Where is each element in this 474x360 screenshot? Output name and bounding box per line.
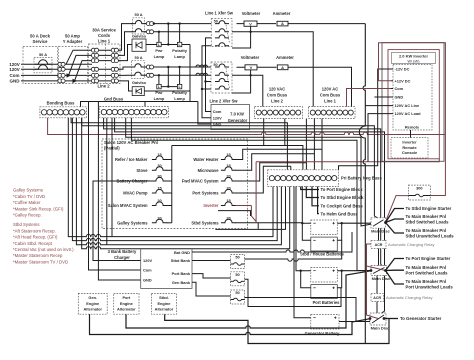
connector service cord: [91, 59, 95, 63]
svg-text:*Galley Recep.: *Galley Recep.: [13, 213, 42, 218]
wire link to charger com: [89, 102, 141, 271]
wire rail to port disc: [104, 118, 386, 271]
svg-text:2.0 KW Inverter: 2.0 KW Inverter: [399, 53, 429, 58]
wire stbd battery parallel right: [337, 223, 341, 240]
svg-text:Com: Com: [395, 86, 404, 91]
svg-text:GalvIso: GalvIso: [132, 80, 147, 85]
junction port disc output: [384, 269, 387, 272]
wire lamp common tap hot line1: [167, 24, 169, 45]
svg-text:Lamp: Lamp: [154, 96, 165, 101]
wire battery charger breaker exit: [102, 180, 153, 182]
wire port battery parallel left: [301, 271, 311, 288]
svg-text:Line 1: Line 1: [98, 39, 111, 44]
enclosure 30A service cords: [89, 44, 121, 84]
breaker bump xfer2 neu: [215, 72, 229, 75]
wire remote to console: [410, 130, 412, 138]
connector Y-adapter hot1: [58, 62, 62, 66]
hop line2 hot over gen wire: [196, 65, 200, 67]
wire stbd systems jog to neg buss: [215, 187, 285, 230]
svg-text:+12V DC: +12V DC: [395, 78, 411, 83]
breaker bump xfer2 hot: [215, 64, 229, 67]
svg-text:*Cabin Stbd. Recept: *Cabin Stbd. Recept: [13, 241, 53, 246]
salon 120V AC breaker panel enclosure: [102, 139, 248, 229]
wire main vertical line1 feed: [359, 24, 365, 344]
svg-text:120V: 120V: [9, 67, 20, 72]
svg-text:50 Amp: 50 Amp: [65, 34, 80, 39]
wire link to charger gnd: [98, 102, 140, 281]
svg-text:50 A: 50 A: [135, 55, 143, 60]
breaker 50A line1: [133, 18, 145, 34]
wire inverter gnd: [374, 96, 391, 98]
junction stbd disc output: [384, 221, 387, 224]
wire com buss line2 drop: [284, 119, 286, 146]
wire lamp common tap line2: [167, 67, 169, 87]
svg-text:Main Disc: Main Disc: [371, 326, 390, 331]
svg-text:Generator: Generator: [228, 118, 248, 123]
wire lamp2 tap hot: [179, 24, 181, 43]
switch main disc generator: [370, 313, 386, 325]
svg-text:Alternator: Alternator: [117, 306, 136, 311]
breaker bump xfer1 gen neu: [215, 43, 229, 46]
svg-text:Stbd Switched Loads: Stbd Switched Loads: [406, 220, 450, 225]
svg-text:Port Bank: Port Bank: [172, 271, 191, 276]
svg-text:*Master Sink Recep. (GFI): *Master Sink Recep. (GFI): [13, 206, 64, 211]
connector service cord: [111, 67, 115, 71]
svg-text:To Main Breaker Pnl: To Main Breaker Pnl: [406, 214, 447, 219]
svg-text:Port Systems: Port Systems: [192, 191, 219, 196]
svg-text:Ammeter: Ammeter: [273, 11, 291, 16]
battery port 2: [311, 285, 338, 299]
connector service cord: [111, 48, 115, 52]
bonding buss strip: [40, 107, 87, 118]
wire line1 hot rise: [120, 24, 133, 51]
junction com split: [67, 73, 72, 77]
wire neg buss to To Stbd Engine Block: [306, 187, 319, 198]
gnd buss strip: [100, 106, 169, 117]
wire neg buss to To Port Engine Block: [301, 187, 319, 190]
svg-text:Bonding Buss: Bonding Buss: [47, 100, 75, 105]
wire line2 hot to xfer: [144, 66, 211, 68]
connector service cord: [111, 53, 115, 57]
wire gnd drop join 4: [111, 118, 113, 237]
wire inverter breaker second pole: [218, 211, 251, 216]
wire inverter AC feed maroon riser: [251, 162, 256, 222]
battery stbd house 1: [311, 220, 338, 235]
svg-text:Com Buss: Com Buss: [320, 92, 341, 97]
wire voltmeter2 stub: [250, 70, 252, 75]
wire charger port bank to fuse: [192, 274, 231, 278]
wire maroon acr to gen disc: [367, 244, 379, 319]
breaker bump line1 neu: [131, 29, 145, 32]
svg-text:A: A: [281, 21, 284, 26]
wire Y split gnd to line1: [75, 61, 93, 81]
wire inverter AC line in: [365, 105, 391, 107]
ACR port-gen: [371, 294, 384, 302]
svg-text:50 A: 50 A: [135, 12, 143, 17]
svg-text:Y Adapter: Y Adapter: [63, 39, 83, 44]
svg-text:To Generator Starter: To Generator Starter: [400, 316, 442, 321]
wire neg buss to stbd batteries: [301, 187, 303, 224]
breaker 50A line2: [132, 61, 145, 79]
svg-text:Stbd Bank: Stbd Bank: [171, 258, 191, 263]
wire line1 gnd through lamps: [146, 44, 190, 46]
svg-text:To Port Engine Block: To Port Engine Block: [321, 187, 364, 192]
svg-text:Water Heater: Water Heater: [193, 157, 219, 162]
wire voltmeter1 return: [232, 32, 251, 48]
breaker bump xfer2 gen neu: [215, 86, 229, 89]
ammeter A1: [277, 21, 288, 26]
enclosure 50A dock service: [23, 47, 58, 84]
svg-text:30A Service: 30A Service: [92, 28, 116, 33]
svg-text:W/ (xfr): W/ (xfr): [407, 59, 419, 63]
wire to To Main Breaker Pnl: [386, 223, 405, 234]
wire ground return run: [72, 118, 277, 241]
ACR stbd-port: [371, 241, 386, 249]
svg-text:120V: 120V: [143, 258, 152, 263]
wire gen gnd to gnd buss: [198, 102, 211, 125]
wire port alternator to port disc: [126, 271, 371, 328]
svg-text:Galley Systems: Galley Systems: [13, 188, 43, 193]
wire gen com tap xfer2: [206, 81, 212, 83]
wire gnd drop join 2: [106, 118, 108, 245]
hop line2 hot over gen wire3: [204, 65, 208, 67]
com buss line2 strip: [255, 107, 303, 119]
lamp polarity line1: [177, 42, 181, 46]
svg-text:Charger: Charger: [114, 255, 130, 260]
connector service cord: [91, 53, 95, 57]
hop line2 neu over gen wire: [196, 73, 200, 75]
svg-text:Lamp: Lamp: [174, 96, 185, 101]
connector line2 hot: [146, 65, 150, 69]
svg-text:MVAC Pump: MVAC Pump: [123, 191, 148, 196]
hop line2 neu over gen wire2: [200, 73, 204, 75]
inverter title box: [392, 52, 436, 63]
wire ground return run: [82, 118, 290, 249]
svg-text:Voltmeter: Voltmeter: [241, 55, 260, 60]
svg-text:Port Switched Loads: Port Switched Loads: [406, 271, 449, 276]
wire line1 conductor: [92, 60, 120, 62]
connector Y-adapter hot2: [58, 67, 62, 71]
svg-text:Port Unswitched Loads: Port Unswitched Loads: [406, 285, 454, 290]
svg-text:7.0 KW: 7.0 KW: [230, 112, 244, 117]
battery charger 3 bank: [141, 249, 192, 289]
wire to To Port Engine Starter: [386, 259, 405, 271]
wire buss1 drop cascade 2: [313, 119, 315, 170]
wire line1 neu to xfer: [145, 31, 212, 33]
breaker bump xfer1 hot: [215, 21, 229, 24]
svg-text:Com Buss: Com Buss: [267, 92, 288, 97]
alternator port engine: [114, 294, 139, 315]
breaker bump line2 neu: [131, 72, 145, 75]
svg-text:Polarity: Polarity: [172, 90, 187, 95]
fuse 300A inverter: [408, 185, 430, 200]
wire inverter -12V to neg buss: [339, 69, 392, 170]
svg-text:50: 50: [235, 290, 239, 295]
wire ACR to disc port: [378, 249, 380, 266]
svg-text:Bat GND: Bat GND: [174, 250, 190, 255]
wire neg buss to To Helm Gnd Buss: [318, 187, 319, 214]
svg-text:To Main Breaker Pnl: To Main Breaker Pnl: [406, 279, 447, 284]
wire xfer1 output to buss1: [232, 32, 313, 107]
svg-text:Polarity: Polarity: [172, 48, 187, 53]
junction port disc input: [370, 269, 373, 272]
switch main disc stbd: [371, 218, 386, 228]
wire port batteries to disc: [342, 270, 371, 272]
fuse 50A gen bank: [231, 290, 245, 304]
wire buss1 drop cascade 3: [305, 119, 307, 170]
wire line2 hot rise: [120, 67, 132, 69]
wire stbd alternator run: [165, 314, 389, 343]
svg-text:Pwr: Pwr: [155, 90, 163, 95]
wire fuse to gen battery: [245, 298, 357, 322]
svg-text:Automatic Charging Relay: Automatic Charging Relay: [386, 295, 432, 300]
voltmeter V1: [244, 21, 257, 26]
wire gen alternator to gen disc: [90, 314, 371, 334]
svg-text:Stbd Systems: Stbd Systems: [191, 220, 219, 225]
svg-text:Cords: Cords: [98, 33, 111, 38]
wire inverter AC load out: [368, 114, 391, 162]
wire line1 neu rise: [120, 32, 133, 56]
svg-text:120V AC Load: 120V AC Load: [395, 111, 422, 116]
wire gen battery to disc: [339, 319, 370, 322]
wire com buss line2 drop: [263, 119, 265, 146]
svg-text:120 VAC: 120 VAC: [269, 86, 285, 91]
junction voltmeter2: [249, 74, 251, 76]
wire fuse to stbd battery: [245, 240, 342, 261]
junction gnd split: [73, 79, 78, 83]
svg-text:Line 2 Xfer Sw: Line 2 Xfer Sw: [210, 98, 239, 103]
breaker 50A dock inner box: [34, 58, 52, 73]
connector Y-adapter com: [58, 73, 62, 77]
wire inverter AC feed maroon run: [256, 159, 439, 162]
wire charger bat gnd: [192, 232, 352, 252]
svg-text:300: 300: [416, 185, 423, 190]
enclosure divider service cords: [105, 44, 107, 84]
hop line2 neu over gen wire3: [204, 73, 208, 75]
wire disc stbd to ACR: [378, 228, 380, 240]
inverter remote console: [391, 138, 428, 158]
svg-text:Console: Console: [402, 150, 418, 155]
svg-text:120V: 120V: [213, 115, 222, 120]
svg-text:Com: Com: [213, 109, 222, 114]
connector service cord: [111, 73, 115, 77]
wire neg buss to To Cockpit Gnd Buss: [312, 187, 319, 206]
wire neg buss to gen battery: [294, 187, 311, 318]
wire charger stbd bank to fuse: [192, 260, 231, 262]
wire rail2 to stbd disc: [126, 118, 377, 226]
breaker bump line2 hot: [131, 64, 145, 67]
wire inverter com to buss1: [347, 89, 392, 107]
connector service cord: [111, 79, 115, 83]
wire ACR2 to disc gen: [376, 302, 378, 314]
svg-text:-12V DC: -12V DC: [395, 67, 410, 72]
wire line1 hot to xfer: [145, 23, 212, 25]
svg-text:V: V: [250, 65, 253, 70]
svg-text:To Main Breaker Pnl: To Main Breaker Pnl: [406, 265, 447, 270]
wire hot2 from shore: [21, 68, 120, 70]
wire rail to gen disc: [115, 118, 385, 316]
svg-text:Port: Port: [122, 295, 130, 300]
wire buss1 drop cascade 1: [321, 119, 323, 170]
svg-text:Voltmeter: Voltmeter: [242, 11, 261, 16]
junction gen disc input: [369, 317, 372, 320]
wire line2 gnd to gnd buss: [189, 91, 191, 102]
wire maroon rail M1: [48, 118, 446, 135]
alternator stbd engine: [151, 294, 176, 315]
svg-text:Remote: Remote: [402, 145, 417, 150]
connector service cord: [91, 73, 95, 77]
svg-text:50: 50: [235, 255, 239, 260]
svg-text:Lamp: Lamp: [154, 54, 165, 59]
svg-text:Refer / Ice Maker: Refer / Ice Maker: [115, 157, 148, 162]
svg-text:Ammeter: Ammeter: [276, 55, 294, 60]
svg-text:Pri Battery Neg Buss: Pri Battery Neg Buss: [341, 176, 382, 181]
connector line2 neu: [146, 73, 150, 77]
wire line2 feed to buss1: [288, 67, 352, 106]
wire salon breaker to charger 120V: [93, 181, 141, 261]
svg-text:Engine: Engine: [120, 301, 134, 306]
wire line2 gnd out: [144, 90, 190, 92]
wire maroon branch to port disc: [367, 266, 386, 271]
svg-text:To Cockpit Gnd Buss: To Cockpit Gnd Buss: [321, 203, 364, 208]
wire fuse to port battery: [245, 279, 342, 306]
wire rail to stbd disc: [82, 118, 386, 223]
svg-text:*Master Stateroom TV / DVD: *Master Stateroom TV / DVD: [13, 259, 68, 264]
wire ground return run: [76, 118, 281, 245]
wire link stub to gnd buss: [144, 102, 146, 107]
wire line1 conductor: [92, 54, 120, 56]
svg-text:Com: Com: [143, 268, 152, 273]
svg-text:50 A: 50 A: [39, 52, 47, 57]
wire fuse 300 to stbd disc: [386, 196, 409, 223]
lamp polarity line2: [177, 84, 181, 88]
connector line1 hot: [146, 22, 150, 26]
svg-text:3 Bank Battery: 3 Bank Battery: [108, 249, 137, 254]
wire to To Main Breaker Pnl: [386, 219, 405, 223]
svg-text:Gen.: Gen.: [88, 295, 97, 300]
inverter pin box: [393, 64, 432, 130]
wire rail3 to port disc: [131, 118, 371, 271]
wire stbd systems jog stub: [257, 223, 259, 230]
svg-text:V: V: [249, 22, 252, 27]
wire voltmeter1 stub: [250, 26, 252, 32]
svg-text:GND: GND: [395, 95, 404, 100]
wire rail to neg buss: [71, 118, 287, 170]
svg-text:*Master Stateroom Recep: *Master Stateroom Recep: [13, 253, 63, 258]
connector line1 neu: [146, 30, 150, 34]
junction gen disc output: [383, 317, 386, 320]
wire line1 conductor: [92, 49, 120, 51]
wire neg buss to port batteries: [296, 187, 301, 271]
inverter outer enclosure: [382, 43, 444, 162]
svg-text:Galley Systems: Galley Systems: [117, 220, 148, 225]
svg-text:To Helm Gnd Buss: To Helm Gnd Buss: [321, 211, 359, 216]
junction voltmeter1: [249, 31, 251, 33]
wire charger gen bank to fuse: [192, 282, 231, 296]
switch main disc port: [371, 266, 387, 276]
wire xfer2 out: [237, 66, 277, 68]
svg-text:GND: GND: [143, 278, 152, 283]
wire Y split com to line1: [69, 55, 93, 75]
svg-text:*Aft Head Recep. (GFI): *Aft Head Recep. (GFI): [13, 235, 58, 240]
svg-text:Stbd Unswitched Loads: Stbd Unswitched Loads: [406, 234, 455, 239]
svg-text:ACR: ACR: [373, 296, 381, 300]
generator 7.0KW: [211, 105, 250, 130]
wire line2 gnd drop: [120, 81, 132, 91]
svg-text:Gen Bank: Gen Bank: [172, 280, 191, 285]
svg-text:Remote: Remote: [405, 125, 420, 130]
svg-text:ACR: ACR: [375, 243, 383, 247]
svg-text:Engine: Engine: [86, 301, 100, 306]
wire lamp2 tap hot line2: [179, 67, 181, 84]
svg-text:50: 50: [214, 19, 218, 23]
wire xfer2 output to buss2: [232, 75, 263, 106]
ammeter A2: [277, 65, 288, 70]
wire to To Main Breaker Pnl: [386, 271, 405, 285]
svg-text:Alternator: Alternator: [155, 306, 174, 311]
fuse 50A port bank: [231, 272, 245, 286]
wire port battery parallel right: [337, 271, 341, 288]
svg-text:Line 2: Line 2: [271, 98, 284, 103]
svg-text:Alternator: Alternator: [83, 306, 102, 311]
svg-text:Pwr: Pwr: [155, 48, 163, 53]
breaker bump dock hot1: [35, 60, 52, 65]
wire lamp1 tap neu: [158, 32, 160, 43]
wire ground return run: [68, 118, 273, 237]
lamp pwr line1: [157, 42, 161, 46]
svg-text:Gnd Buss: Gnd Buss: [104, 97, 124, 102]
svg-text:Inverter: Inverter: [402, 140, 417, 145]
wire lamp link line2: [161, 86, 177, 88]
wire salon left bus: [171, 146, 173, 223]
wire gen 120V tap xfer2: [202, 88, 211, 90]
wire Y split hot1 to line1: [66, 50, 92, 64]
wire gen 120V to xfer1: [202, 46, 211, 118]
svg-text:A: A: [281, 65, 284, 70]
svg-text:Microwave: Microwave: [198, 168, 220, 173]
wire line1 gnd to gnd buss: [189, 45, 191, 102]
wire stbd battery parallel left: [302, 223, 311, 240]
wire cascade stub 4: [290, 166, 292, 170]
svg-text:Main Disc: Main Disc: [372, 276, 391, 281]
breaker bump line1 hot: [131, 20, 145, 23]
svg-text:Automatic Charging Relay: Automatic Charging Relay: [388, 242, 434, 247]
connector service cord: [91, 79, 95, 83]
svg-text:Line 2: Line 2: [97, 84, 110, 89]
enclosure 50A Y adapter: [59, 47, 88, 84]
wire salon top feed: [172, 146, 303, 170]
wire hot1 from shore: [21, 63, 92, 65]
breaker bump xfer2 gen hot: [215, 79, 229, 82]
wire gnd from shore: [21, 80, 120, 82]
svg-text:Lamp: Lamp: [174, 54, 185, 59]
pri battery neg buss strip: [268, 170, 339, 187]
svg-text:120V AC Line: 120V AC Line: [395, 103, 421, 108]
svg-text:Stbd.: Stbd.: [159, 295, 169, 300]
svg-text:*Aft Stateroom Recep.: *Aft Stateroom Recep.: [13, 228, 56, 233]
wire stbd batteries to disc: [342, 222, 371, 224]
svg-text:*Central Vac (not used on invt: *Central Vac (not used on invtr.): [13, 247, 74, 252]
wire line1 gnd rise: [120, 45, 132, 61]
wire inverter +12V to fuse 300: [379, 43, 446, 196]
wire com from shore: [21, 74, 120, 76]
wire bonding to gnd buss link: [81, 102, 198, 107]
svg-text:To Stbd Engine Block: To Stbd Engine Block: [321, 195, 365, 200]
wire to To Main Breaker Pnl: [386, 269, 405, 271]
svg-text:Stove: Stove: [136, 168, 148, 173]
hop line2 hot over gen wire2: [200, 65, 204, 67]
transfer switch line2: [211, 62, 232, 93]
